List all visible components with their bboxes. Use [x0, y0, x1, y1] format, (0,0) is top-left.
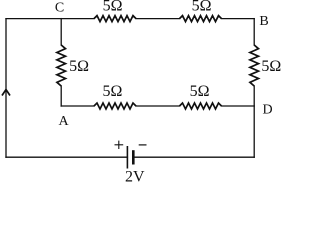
wire inner bottom left segment (node A to R3)	[61, 105, 94, 107]
wire top-left segment (top-left corner to node C)	[6, 18, 94, 20]
resistor R2 5ohm (top-right, between C and B)	[180, 16, 222, 22]
wire inner-left vertical lower (R5 down to node A)	[60, 86, 62, 106]
svg-text:B: B	[259, 14, 268, 29]
resistor R6 5ohm (right vertical, between B and D)	[250, 45, 259, 86]
svg-text:5Ω: 5Ω	[103, 0, 123, 15]
wire bottom-left segment (bottom-left corner to battery + plate)	[6, 156, 127, 158]
wire bottom-right segment (battery - plate to bottom-right corner)	[133, 156, 254, 158]
svg-text:2V: 2V	[125, 168, 145, 185]
svg-text:5Ω: 5Ω	[261, 58, 281, 75]
current direction arrow on left edge (pointing up)	[2, 90, 10, 96]
svg-text:D: D	[262, 103, 272, 118]
svg-text:5Ω: 5Ω	[103, 83, 123, 100]
wire top-middle segment (R1 to R2)	[136, 18, 180, 20]
svg-text:5Ω: 5Ω	[192, 0, 212, 15]
resistor R1 5ohm (top-left, between C and B)	[94, 16, 136, 22]
wire right edge lower (R6 through node D to bottom-right corner)	[253, 86, 255, 157]
wire left edge (outer loop, top-left corner down to bottom-left corner)	[5, 19, 7, 158]
resistor R4 5ohm (bottom-right, between A and D)	[180, 103, 222, 109]
battery plus sign	[115, 141, 124, 149]
svg-text:C: C	[55, 1, 64, 16]
wire inner-left vertical upper (node C down to R5)	[60, 19, 62, 45]
wire top-right segment (R2 to node B corner)	[222, 18, 255, 20]
svg-text:5Ω: 5Ω	[190, 83, 210, 100]
wire inner bottom right segment (R4 to node D)	[222, 105, 255, 107]
battery V1 negative plate (short thick, right)	[132, 150, 135, 164]
resistor R3 5ohm (bottom-left, between A and D)	[94, 103, 136, 109]
battery V1 positive plate (long thin, left)	[126, 146, 128, 169]
wire inner bottom middle segment (R3 to R4)	[136, 105, 180, 107]
wire right edge upper (node B down to R6)	[253, 19, 255, 45]
svg-text:5Ω: 5Ω	[69, 58, 89, 75]
battery minus sign	[139, 144, 147, 146]
svg-text:A: A	[58, 114, 69, 129]
resistor R5 5ohm (left vertical, between C and A)	[57, 45, 66, 86]
